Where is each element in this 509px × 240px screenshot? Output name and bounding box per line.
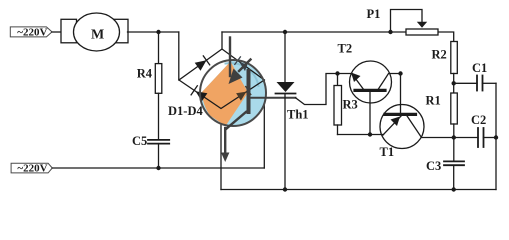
transistor T2 collector	[378, 74, 401, 91]
thyristor Th1 anode wire	[284, 32, 286, 82]
thyristor Th1 triangle	[277, 82, 295, 92]
resistor R1 lead bottom	[453, 124, 455, 161]
diode D3 lower-left edge	[191, 86, 207, 102]
overlay transistor collector diagonal	[226, 112, 246, 129]
thyristor Th1 gate wire	[296, 74, 338, 105]
bridge rectifier D1-D4 diamond	[179, 49, 264, 109]
right rail wire	[495, 83, 497, 189]
transistor T1 body	[380, 105, 424, 149]
overlay transistor collector lead	[229, 38, 231, 77]
svg-text:R3: R3	[343, 98, 358, 112]
svg-text:T2: T2	[338, 42, 353, 56]
potentiometer P1 wiper loop	[391, 10, 423, 33]
overlay transistor circle outline	[200, 60, 266, 126]
resistor R4 lead bottom	[158, 93, 160, 140]
capacitor C3 lead bottom	[453, 165, 455, 189]
wire T1 base up to node	[400, 74, 402, 115]
svg-text:C2: C2	[471, 113, 486, 127]
highlight overlay: orange diamond	[202, 62, 248, 127]
bottom rail wire	[221, 189, 496, 191]
svg-text:Th1: Th1	[287, 108, 309, 122]
capacitor C2 lead left	[454, 137, 478, 139]
overlay transistor emitter lead down	[224, 128, 226, 154]
overlay emitter arrowhead	[221, 153, 229, 163]
capacitor C3	[444, 161, 464, 165]
resistor R2	[451, 42, 458, 74]
junction dot C3 on bottom rail	[452, 187, 456, 191]
diode D4 lower-right edge	[236, 87, 251, 101]
svg-text:M: M	[91, 27, 104, 42]
diode D1 upper-left edge	[195, 56, 210, 71]
junction dot R1/C2/C3/T1c	[452, 135, 456, 139]
junction dot T2 base on wire	[368, 132, 372, 136]
potentiometer P1 junction dot	[388, 30, 392, 34]
wire R3 to T1 emitter	[338, 134, 384, 136]
wire node A down to bridge left corner	[178, 32, 180, 80]
transistor T1 collector	[406, 114, 454, 137]
diode D2 upper-right edge	[235, 57, 248, 71]
capacitor C1 lead right	[483, 82, 497, 84]
transistor T1 emitter with arrow	[383, 115, 402, 135]
junction dot C2 on right rail	[494, 135, 498, 139]
thyristor Th1 cathode junction dot bottom	[283, 187, 287, 191]
capacitor C5	[148, 140, 169, 144]
resistor R3 lead bottom	[337, 125, 339, 135]
wire motor to node A	[128, 31, 179, 33]
svg-text:D1-D4: D1-D4	[168, 104, 203, 118]
thyristor Th1 anode junction dot	[283, 30, 287, 34]
wire top rail right section	[222, 32, 454, 42]
terminal flag ~220V top	[10, 27, 52, 39]
wire node B to T2 emitter	[338, 73, 353, 75]
resistor R1	[451, 93, 458, 124]
wire bridge top corner up	[221, 32, 223, 49]
overlay transistor base lead	[249, 97, 296, 99]
capacitor C2 lead right	[484, 137, 497, 139]
thyristor Th1 cathode bar	[276, 93, 296, 95]
svg-text:C3: C3	[426, 159, 441, 173]
highlight overlay: inner blue arc shade	[226, 63, 259, 86]
node B junction dot (gate/R3/T2 emitter)	[335, 71, 339, 75]
svg-text:R2: R2	[432, 48, 447, 62]
transistor T1 base bar	[385, 113, 416, 116]
resistor R4	[155, 64, 162, 94]
wire bridge bottom corner down to bottom rail	[220, 108, 222, 190]
svg-text:~220V: ~220V	[17, 163, 47, 175]
svg-text:T1: T1	[380, 145, 395, 159]
node A junction dot	[156, 30, 160, 34]
transistor T2 body	[350, 61, 392, 103]
highlight overlay: big transistor circle blue fill	[200, 61, 266, 127]
terminal flag ~220V bottom	[11, 163, 52, 175]
svg-text:C5: C5	[132, 134, 147, 148]
svg-text:R4: R4	[137, 66, 153, 80]
svg-text:R1: R1	[426, 94, 441, 108]
transistor T2 emitter with arrow	[351, 73, 364, 91]
thyristor Th1 cathode wire	[284, 94, 286, 190]
svg-text:P1: P1	[367, 7, 381, 21]
resistor R2 lead bottom	[453, 74, 455, 94]
motor M1 brush left	[61, 19, 77, 43]
capacitor C1	[477, 76, 483, 91]
resistor R3 lead top	[337, 74, 339, 86]
potentiometer P1 wiper arrowhead	[417, 22, 427, 28]
junction dot T2 collector / T1 base	[398, 71, 402, 75]
motor M1 brush right	[113, 19, 129, 43]
transistor T2 base lead	[369, 90, 371, 134]
lower rail wire	[52, 167, 264, 169]
wire flag to motor	[52, 31, 63, 33]
resistor R4 lead top	[158, 32, 160, 64]
junction dot C5 on lower rail	[156, 166, 160, 170]
capacitor C1 lead left	[454, 82, 477, 84]
wire bridge right corner down to lower rail	[263, 80, 265, 168]
resistor R3	[334, 86, 342, 126]
motor M1 body	[74, 13, 120, 51]
potentiometer P1 body	[406, 29, 438, 35]
capacitor C5 lead bottom	[158, 144, 160, 168]
capacitor C2	[478, 128, 484, 147]
svg-text:C1: C1	[472, 61, 487, 75]
junction dot R2/R1/C1	[452, 81, 456, 85]
transistor T2 base bar	[355, 89, 385, 92]
overlay transistor emitter arrow big	[229, 60, 251, 85]
overlay transistor base bar	[247, 71, 251, 112]
svg-text:~220V: ~220V	[17, 27, 47, 39]
